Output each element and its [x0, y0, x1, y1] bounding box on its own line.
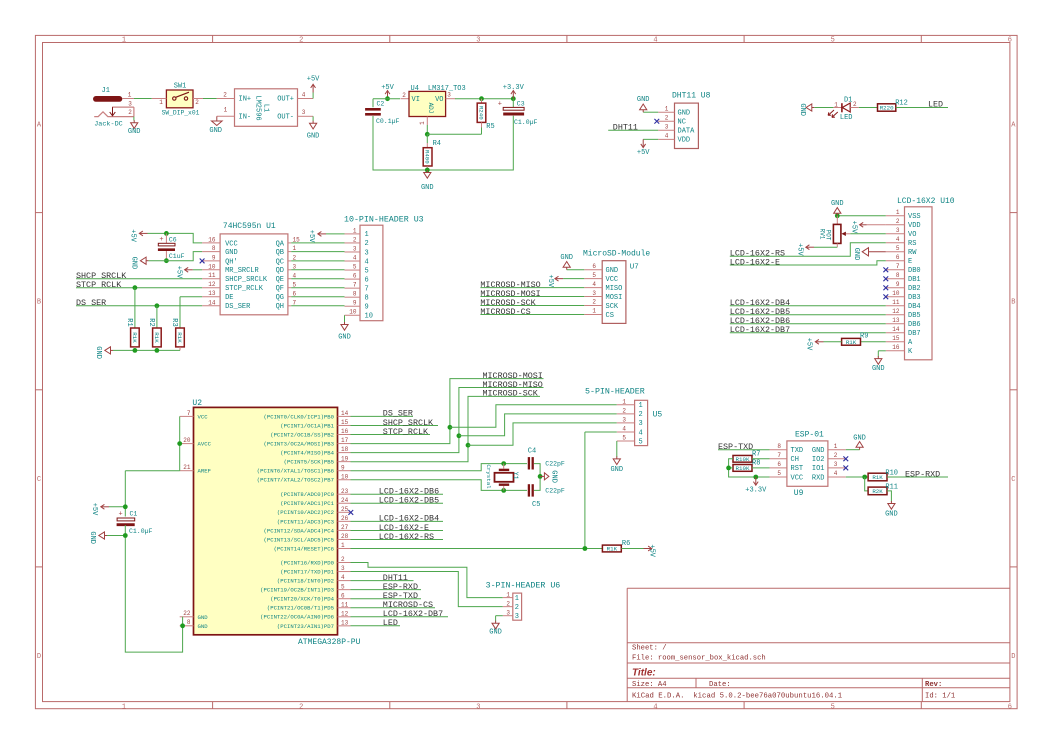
svg-text:4: 4: [834, 470, 838, 477]
svg-text:+5V: +5V: [90, 503, 98, 516]
svg-text:U5: U5: [653, 410, 663, 419]
svg-text:LCD-16X2 U10: LCD-16X2 U10: [897, 197, 955, 206]
svg-text:2: 2: [506, 600, 510, 607]
svg-text:C1.0µF: C1.0µF: [514, 119, 538, 126]
svg-text:(PCINT21/OC0B/T1)PD5: (PCINT21/OC0B/T1)PD5: [267, 605, 334, 612]
svg-text:(PCINT10/ADC2)PC2: (PCINT10/ADC2)PC2: [277, 509, 334, 516]
svg-text:1: 1: [896, 209, 900, 216]
svg-text:QB: QB: [276, 249, 284, 257]
svg-text:B: B: [1011, 299, 1015, 307]
svg-text:R1K: R1K: [846, 339, 857, 346]
svg-text:SHCP_SRCLK: SHCP_SRCLK: [225, 276, 268, 284]
svg-text:R8: R8: [752, 460, 760, 468]
svg-text:(PCINT14/RESET)PC6: (PCINT14/RESET)PC6: [274, 545, 334, 552]
svg-text:14: 14: [892, 326, 900, 333]
svg-text:7: 7: [777, 452, 781, 459]
svg-text:GND: GND: [678, 110, 691, 118]
svg-text:7: 7: [365, 285, 369, 293]
svg-text:5: 5: [831, 37, 835, 45]
svg-text:9: 9: [896, 281, 900, 288]
svg-text:IO2: IO2: [812, 456, 825, 464]
svg-text:6: 6: [1008, 703, 1012, 711]
svg-text:R1K: R1K: [607, 546, 618, 553]
svg-text:OUT+: OUT+: [277, 96, 294, 104]
svg-text:10: 10: [349, 309, 357, 316]
svg-text:QH: QH: [276, 303, 284, 311]
svg-text:3: 3: [639, 420, 643, 428]
svg-text:4: 4: [302, 91, 306, 98]
svg-text:4: 4: [622, 426, 626, 433]
svg-text:VO: VO: [908, 231, 916, 239]
svg-text:6: 6: [777, 461, 781, 468]
svg-text:DB3: DB3: [908, 294, 921, 302]
svg-text:R9: R9: [860, 332, 868, 340]
svg-text:ESP-RXD: ESP-RXD: [905, 469, 940, 479]
svg-text:(PCINT3/OC2A/MOSI)PB3: (PCINT3/OC2A/MOSI)PB3: [264, 440, 335, 447]
svg-text:R10K: R10K: [736, 465, 750, 472]
svg-text:GND: GND: [88, 531, 96, 544]
svg-text:+5V: +5V: [647, 544, 655, 557]
svg-text:R1K: R1K: [176, 332, 183, 343]
svg-text:13: 13: [208, 290, 216, 297]
svg-text:1: 1: [122, 703, 126, 711]
svg-text:3: 3: [476, 37, 480, 45]
svg-text:12: 12: [892, 308, 900, 315]
svg-text:Id: 1/1: Id: 1/1: [925, 692, 955, 700]
svg-text:DB1: DB1: [908, 276, 921, 284]
svg-text:R5: R5: [486, 123, 494, 131]
svg-text:3: 3: [896, 227, 900, 234]
svg-text:5: 5: [896, 245, 900, 252]
svg-text:LM2596: LM2596: [254, 95, 262, 120]
svg-text:C22pF: C22pF: [545, 461, 565, 468]
svg-text:DHT11: DHT11: [613, 122, 638, 132]
svg-text:SW1: SW1: [174, 83, 187, 91]
svg-text:13: 13: [892, 317, 900, 324]
svg-text:RW: RW: [908, 249, 917, 257]
svg-text:19: 19: [341, 455, 349, 462]
svg-text:VSS: VSS: [908, 213, 921, 221]
svg-text:(PCINT19/OC2B/INT1)PD3: (PCINT19/OC2B/INT1)PD3: [260, 587, 334, 594]
svg-text:(PCINT23/AIN1)PD7: (PCINT23/AIN1)PD7: [277, 623, 334, 630]
svg-text:U7: U7: [630, 263, 639, 271]
svg-text:C: C: [37, 476, 41, 484]
svg-text:SW_DIP_x01: SW_DIP_x01: [162, 110, 200, 117]
svg-text:CS: CS: [606, 312, 614, 320]
svg-text:GND: GND: [798, 103, 806, 116]
svg-text:2: 2: [592, 299, 596, 306]
svg-text:AREF: AREF: [198, 468, 211, 475]
svg-text:8: 8: [365, 294, 369, 302]
svg-text:ATMEGA328P-PU: ATMEGA328P-PU: [298, 638, 361, 647]
svg-text:1: 1: [159, 99, 163, 106]
svg-text:5: 5: [365, 267, 369, 275]
svg-text:11: 11: [208, 272, 216, 279]
svg-text:R1K: R1K: [153, 332, 160, 343]
svg-text:VDD: VDD: [678, 137, 691, 145]
svg-text:+3.3V: +3.3V: [745, 486, 767, 494]
svg-text:R2K: R2K: [872, 488, 883, 495]
svg-text:C0.1µF: C0.1µF: [376, 118, 400, 125]
svg-text:6: 6: [365, 276, 369, 284]
svg-text:IO1: IO1: [812, 465, 825, 473]
svg-text:4: 4: [653, 37, 657, 45]
svg-text:+: +: [498, 100, 502, 108]
svg-text:VCC: VCC: [198, 413, 209, 420]
svg-text:2: 2: [353, 236, 357, 243]
svg-text:R10: R10: [885, 470, 898, 478]
svg-text:15: 15: [341, 419, 349, 426]
svg-text:DB0: DB0: [908, 267, 921, 275]
svg-text:23: 23: [341, 488, 349, 495]
svg-text:R1K: R1K: [872, 474, 883, 481]
svg-text:GND: GND: [831, 200, 844, 208]
svg-text:4: 4: [639, 429, 643, 437]
svg-text:2: 2: [515, 604, 519, 612]
svg-text:2: 2: [639, 411, 643, 419]
svg-text:8: 8: [187, 619, 191, 626]
svg-text:25: 25: [341, 506, 349, 513]
svg-text:1: 1: [365, 231, 369, 239]
svg-text:GND: GND: [872, 365, 885, 373]
svg-text:GND: GND: [225, 249, 238, 257]
svg-text:(PCINT6/XTAL1/TOSC1)PB6: (PCINT6/XTAL1/TOSC1)PB6: [257, 468, 334, 475]
svg-text:6: 6: [896, 254, 900, 261]
svg-text:2: 2: [853, 101, 857, 108]
svg-text:3: 3: [665, 124, 669, 131]
svg-text:GND: GND: [853, 434, 866, 442]
svg-text:13: 13: [341, 619, 349, 626]
svg-text:R12: R12: [895, 100, 908, 108]
svg-text:QF: QF: [276, 285, 284, 293]
svg-text:ADJ: ADJ: [427, 103, 434, 114]
svg-text:MICROSD-SCK: MICROSD-SCK: [483, 389, 539, 399]
svg-text:GND: GND: [606, 267, 619, 275]
svg-text:4: 4: [592, 281, 596, 288]
svg-text:B: B: [37, 299, 41, 307]
svg-text:SCK: SCK: [606, 303, 619, 311]
svg-text:12: 12: [341, 610, 349, 617]
svg-text:MISO: MISO: [606, 285, 623, 293]
svg-text:15: 15: [892, 335, 900, 342]
svg-text:2: 2: [402, 92, 406, 99]
svg-text:5: 5: [639, 438, 643, 446]
svg-text:U9: U9: [794, 489, 804, 498]
svg-text:MICROSD-CS: MICROSD-CS: [480, 307, 530, 317]
svg-text:3: 3: [506, 609, 510, 616]
svg-text:(PCINT17/TXD)PD1: (PCINT17/TXD)PD1: [280, 568, 334, 575]
svg-text:2: 2: [223, 91, 227, 98]
svg-text:4: 4: [341, 574, 345, 581]
svg-text:9: 9: [353, 300, 357, 307]
svg-text:DS_SER: DS_SER: [225, 303, 251, 311]
svg-text:VDD: VDD: [908, 222, 921, 230]
svg-text:ESP-TXD: ESP-TXD: [718, 442, 753, 452]
svg-text:GND: GND: [560, 254, 573, 262]
svg-text:1: 1: [341, 542, 345, 549]
svg-text:+: +: [159, 236, 163, 244]
svg-text:R220: R220: [880, 105, 894, 112]
svg-text:MR_SRCLR: MR_SRCLR: [225, 267, 259, 275]
svg-text:(PCINT9/ADC1)PC1: (PCINT9/ADC1)PC1: [280, 500, 334, 507]
svg-text:GND: GND: [637, 96, 650, 104]
svg-text:IN-: IN-: [239, 113, 252, 121]
svg-text:+5V: +5V: [804, 338, 812, 351]
svg-text:E: E: [908, 258, 912, 266]
svg-text:LED: LED: [383, 618, 398, 628]
svg-text:J1: J1: [102, 87, 110, 95]
svg-text:LED: LED: [840, 114, 853, 122]
svg-text:C1uF: C1uF: [169, 253, 185, 260]
svg-text:GND: GND: [421, 184, 434, 192]
svg-text:ESP-01: ESP-01: [795, 431, 824, 440]
svg-text:22: 22: [183, 610, 191, 617]
svg-text:R2: R2: [147, 318, 155, 326]
svg-text:Title:: Title:: [632, 667, 656, 678]
svg-text:DB5: DB5: [908, 312, 921, 320]
svg-text:C1.0µF: C1.0µF: [129, 528, 153, 535]
svg-text:D1: D1: [844, 96, 852, 104]
svg-text:8: 8: [777, 443, 781, 450]
svg-text:2: 2: [299, 703, 303, 711]
svg-text:GND: GND: [209, 127, 222, 135]
svg-text:+5V: +5V: [307, 230, 315, 243]
svg-text:16: 16: [892, 344, 900, 351]
svg-text:3: 3: [476, 703, 480, 711]
svg-text:DS_SER: DS_SER: [76, 298, 106, 308]
svg-text:10: 10: [341, 473, 349, 480]
svg-text:(PCINT22/OC0A/AIN0)PD6: (PCINT22/OC0A/AIN0)PD6: [260, 614, 334, 621]
svg-text:VI: VI: [412, 96, 420, 104]
svg-text:+5V: +5V: [128, 229, 136, 242]
svg-text:DB2: DB2: [908, 285, 921, 293]
svg-text:24: 24: [341, 497, 349, 504]
svg-text:16: 16: [208, 236, 216, 243]
svg-text:C5: C5: [532, 501, 540, 509]
svg-text:3: 3: [302, 109, 306, 116]
svg-text:Crystal: Crystal: [485, 464, 492, 489]
svg-text:1: 1: [128, 91, 132, 98]
svg-text:(PCINT5/SCK)PB5: (PCINT5/SCK)PB5: [284, 459, 334, 466]
svg-text:MOSI: MOSI: [606, 294, 623, 302]
svg-text:DB4: DB4: [908, 303, 921, 311]
svg-text:RXD: RXD: [812, 474, 825, 482]
svg-text:21: 21: [183, 464, 191, 471]
svg-text:D: D: [1011, 653, 1015, 661]
svg-text:+5V: +5V: [546, 275, 554, 288]
svg-text:10: 10: [892, 290, 900, 297]
svg-text:Rev:: Rev:: [925, 681, 942, 689]
svg-text:VCC: VCC: [606, 276, 619, 284]
svg-text:6: 6: [592, 263, 596, 270]
svg-text:8: 8: [212, 245, 216, 252]
svg-text:(PCINT0/CLK0/ICP1)PB0: (PCINT0/CLK0/ICP1)PB0: [264, 413, 335, 420]
svg-text:5: 5: [831, 703, 835, 711]
svg-text:14: 14: [341, 410, 349, 417]
svg-text:U2: U2: [192, 399, 202, 408]
svg-text:R11: R11: [885, 483, 898, 491]
svg-text:(PCINT7/XTAL2/TOSC2)PB7: (PCINT7/XTAL2/TOSC2)PB7: [257, 477, 334, 484]
svg-text:L1: L1: [262, 104, 270, 112]
svg-text:DB6: DB6: [908, 321, 921, 329]
svg-text:QC: QC: [276, 258, 284, 266]
svg-text:+5V: +5V: [795, 243, 803, 256]
svg-text:10-PIN-HEADER U3: 10-PIN-HEADER U3: [344, 215, 424, 224]
svg-text:LCD-16X2-RS: LCD-16X2-RS: [379, 532, 434, 542]
svg-text:KiCad E.D.A. kicad 5.0.2-bee7: KiCad E.D.A. kicad 5.0.2-bee76a070ubuntu…: [632, 692, 843, 700]
svg-text:C1: C1: [130, 511, 138, 518]
svg-text:RS: RS: [908, 240, 916, 248]
svg-text:4: 4: [365, 258, 369, 266]
svg-text:POT: POT: [825, 230, 832, 241]
svg-text:+: +: [118, 511, 122, 519]
svg-text:1: 1: [353, 227, 357, 234]
svg-text:4: 4: [353, 254, 357, 261]
svg-text:2: 2: [299, 37, 303, 45]
svg-text:28: 28: [341, 533, 349, 540]
svg-text:1: 1: [515, 595, 519, 603]
svg-text:1: 1: [834, 101, 838, 108]
svg-text:(PCINT11/ADC3)PC3: (PCINT11/ADC3)PC3: [277, 518, 334, 525]
svg-text:1: 1: [622, 399, 626, 406]
svg-text:2: 2: [665, 115, 669, 122]
svg-text:4: 4: [896, 236, 900, 243]
svg-text:LCD-16X2-DB7: LCD-16X2-DB7: [730, 325, 790, 335]
svg-text:GND: GND: [307, 132, 320, 140]
svg-text:IN+: IN+: [239, 96, 252, 104]
svg-text:(PCINT20/XCK/T0)PD4: (PCINT20/XCK/T0)PD4: [270, 596, 334, 603]
svg-text:1: 1: [639, 402, 643, 410]
svg-text:26: 26: [341, 515, 349, 522]
svg-text:1: 1: [665, 106, 669, 113]
svg-text:VO: VO: [435, 96, 443, 104]
svg-text:11: 11: [341, 601, 349, 608]
svg-text:R10K: R10K: [736, 456, 750, 463]
svg-text:GND: GND: [489, 628, 502, 636]
svg-text:6: 6: [353, 273, 357, 280]
svg-text:5-PIN-HEADER: 5-PIN-HEADER: [585, 387, 645, 396]
svg-text:4: 4: [653, 703, 657, 711]
svg-text:GND: GND: [610, 466, 623, 474]
svg-text:R1K: R1K: [131, 332, 138, 343]
svg-text:5: 5: [353, 263, 357, 270]
svg-text:1: 1: [834, 443, 838, 450]
svg-text:(PCINT12/SDA/ADC4)PC4: (PCINT12/SDA/ADC4)PC4: [264, 527, 335, 534]
svg-text:2: 2: [622, 408, 626, 415]
svg-text:3: 3: [622, 417, 626, 424]
svg-text:QA: QA: [276, 240, 285, 248]
svg-text:C22pF: C22pF: [545, 487, 565, 494]
svg-text:27: 27: [341, 524, 349, 531]
svg-text:Jack-DC: Jack-DC: [94, 121, 123, 129]
svg-text:14: 14: [208, 299, 216, 306]
svg-text:17: 17: [341, 437, 349, 444]
svg-text:+5V: +5V: [381, 84, 394, 92]
svg-text:LCD-16X2-DB5: LCD-16X2-DB5: [379, 496, 439, 506]
svg-text:8: 8: [896, 272, 900, 279]
svg-text:GND: GND: [128, 128, 141, 136]
svg-text:GND: GND: [852, 248, 860, 261]
svg-text:File: room_sensor_box_kicad.sc: File: room_sensor_box_kicad.sch: [632, 654, 766, 662]
svg-text:8: 8: [353, 291, 357, 298]
svg-text:2: 2: [341, 556, 345, 563]
svg-text:D: D: [37, 653, 41, 661]
svg-text:AVCC: AVCC: [198, 441, 212, 448]
svg-text:7: 7: [896, 263, 900, 270]
svg-text:1: 1: [592, 308, 596, 315]
svg-text:R7: R7: [752, 451, 760, 459]
svg-text:5: 5: [592, 272, 596, 279]
svg-text:1: 1: [224, 107, 228, 114]
svg-text:(PCINT4/MISO)PB4: (PCINT4/MISO)PB4: [280, 450, 334, 457]
svg-text:5: 5: [341, 583, 345, 590]
svg-text:GND: GND: [94, 346, 102, 359]
svg-text:(PCINT16/RXD)PD0: (PCINT16/RXD)PD0: [280, 559, 334, 566]
svg-text:+5V: +5V: [175, 266, 183, 279]
svg-text:DHT11 U8: DHT11 U8: [672, 92, 711, 101]
svg-text:3: 3: [353, 245, 357, 252]
svg-text:GND: GND: [338, 334, 351, 342]
svg-text:GND: GND: [550, 470, 558, 483]
svg-text:(PCINT8/ADC0)PC0: (PCINT8/ADC0)PC0: [280, 491, 334, 498]
svg-text:6: 6: [341, 592, 345, 599]
svg-text:C3: C3: [517, 100, 525, 107]
svg-text:OUT-: OUT-: [277, 113, 294, 121]
svg-text:(PCINT18/INT0)PD2: (PCINT18/INT0)PD2: [277, 578, 334, 585]
svg-text:GND: GND: [885, 510, 898, 518]
svg-text:STCP_RCLK: STCP_RCLK: [383, 427, 429, 437]
svg-text:+5V: +5V: [849, 221, 857, 234]
svg-text:+3.3V: +3.3V: [503, 84, 525, 92]
svg-text:GND: GND: [129, 257, 137, 270]
svg-text:CH: CH: [791, 456, 799, 464]
svg-text:QD: QD: [276, 267, 284, 275]
svg-text:R3: R3: [170, 318, 178, 326]
svg-text:(PCINT2/OC1B/SS)PB2: (PCINT2/OC1B/SS)PB2: [270, 431, 334, 438]
svg-text:MicroSD-Module: MicroSD-Module: [583, 250, 650, 259]
svg-text:10: 10: [365, 313, 373, 321]
svg-text:9: 9: [341, 464, 345, 471]
svg-text:7: 7: [353, 282, 357, 289]
svg-text:Y1: Y1: [512, 472, 519, 480]
svg-text:5: 5: [777, 470, 781, 477]
svg-text:10: 10: [208, 263, 216, 270]
svg-text:(PCINT13/SCL/ADC5)PC5: (PCINT13/SCL/ADC5)PC5: [264, 536, 335, 543]
svg-text:7: 7: [187, 410, 191, 417]
svg-text:R1: R1: [125, 318, 133, 326]
svg-text:RST: RST: [791, 465, 804, 473]
svg-text:9: 9: [212, 254, 216, 261]
svg-text:3: 3: [592, 290, 596, 297]
svg-text:3: 3: [365, 249, 369, 257]
svg-text:DATA: DATA: [678, 128, 696, 136]
svg-text:2: 2: [834, 452, 838, 459]
svg-text:Size: A4: Size: A4: [632, 681, 667, 689]
svg-text:3: 3: [515, 613, 519, 621]
svg-text:3-PIN-HEADER U6: 3-PIN-HEADER U6: [486, 582, 561, 591]
svg-text:R400: R400: [423, 150, 430, 164]
svg-text:STCP_RCLK: STCP_RCLK: [76, 280, 122, 290]
svg-text:3: 3: [834, 461, 838, 468]
svg-text:GND: GND: [812, 447, 825, 455]
svg-text:1: 1: [122, 37, 126, 45]
svg-text:VCC: VCC: [791, 474, 804, 482]
svg-text:9: 9: [365, 304, 369, 312]
svg-text:16: 16: [341, 428, 349, 435]
svg-text:STCP_RCLK: STCP_RCLK: [225, 285, 264, 293]
svg-text:5: 5: [622, 435, 626, 442]
svg-text:TXD: TXD: [791, 447, 804, 455]
